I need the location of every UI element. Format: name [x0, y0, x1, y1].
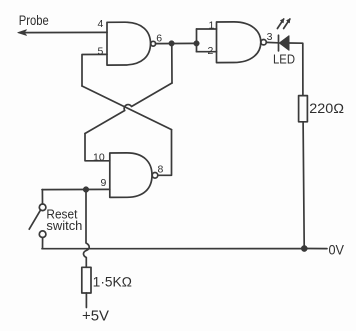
svg-text:LED: LED [273, 52, 295, 66]
wire U2 pin9 input [42, 188, 110, 190]
probe arrowhead [18, 30, 27, 36]
svg-text:1·5KΩ: 1·5KΩ [93, 274, 133, 289]
wire cross-couple U1 out down [171, 46, 173, 83]
node junction dot after pin 6 [169, 41, 175, 47]
wire R1 down to 0V node [303, 122, 304, 246]
wire U2 output up [158, 130, 172, 176]
svg-text:+5V: +5V [82, 309, 109, 325]
wire U1 pin5 input [82, 54, 107, 86]
svg-text:220Ω: 220Ω [309, 101, 344, 116]
0V rail [42, 248, 304, 250]
svg-text:1: 1 [209, 20, 215, 32]
wire U3 output to LED [266, 41, 278, 43]
svg-text:5: 5 [98, 45, 104, 57]
inverter bubble U3 output [261, 40, 266, 45]
wire U1 output pin6 to node [156, 42, 197, 44]
wire R2 to +5V [85, 293, 87, 308]
wire probe input to gate U1 pin 4 [20, 31, 107, 33]
wire U3 input split vertical [196, 29, 198, 52]
resistor R2 1.5K body [82, 267, 91, 293]
wire stub to 0V label [308, 248, 328, 250]
node junction dot pin9 [83, 187, 89, 193]
svg-text:3: 3 [267, 31, 273, 43]
svg-text:2: 2 [208, 45, 214, 57]
svg-text:9: 9 [101, 177, 107, 189]
inverter bubble U1 output [151, 41, 156, 46]
svg-text:10: 10 [93, 152, 105, 164]
op: NAND gate U3 (pins 1,2,3) body [217, 22, 261, 63]
op: NAND gate U2 (pins 10,9,8) body [110, 153, 152, 198]
wire diagonal U1-out to U2-pin10 with hop [85, 83, 172, 134]
svg-text:switch: switch [46, 219, 82, 233]
wire pin9 node down with hop over 0V rail [83, 192, 89, 267]
reset switch: wire from pin9 wire down to top contact [41, 190, 43, 204]
LED light arrow 1 [277, 19, 283, 29]
wire diagonal U2-out to U1-pin5 [82, 86, 172, 130]
wire U3 pin2 [197, 51, 217, 53]
svg-text:0V: 0V [329, 242, 345, 258]
wire U3 pin1 [197, 28, 217, 30]
switch lever [29, 210, 40, 229]
wire LED to resistor branch [289, 43, 303, 96]
inverter bubble U2 output [152, 173, 158, 179]
wire bottom contact to 0V rail [42, 238, 44, 249]
switch top contact [39, 204, 46, 211]
node junction dot U3 input [194, 41, 200, 47]
LED D1 cathode bar [278, 35, 280, 51]
resistor R1 220 body [299, 96, 308, 122]
LED D1 triangle [279, 36, 289, 50]
node junction dot 0V [301, 245, 307, 251]
LED light arrow 2 [284, 19, 290, 29]
svg-text:4: 4 [98, 18, 104, 30]
svg-text:6: 6 [156, 32, 162, 44]
switch bottom contact [39, 231, 46, 238]
op: NAND gate U1 (pins 4,5,6) body [107, 22, 151, 65]
svg-text:Probe: Probe [19, 12, 49, 28]
wire down to pin 10 [85, 134, 110, 161]
svg-text:8: 8 [158, 164, 164, 176]
